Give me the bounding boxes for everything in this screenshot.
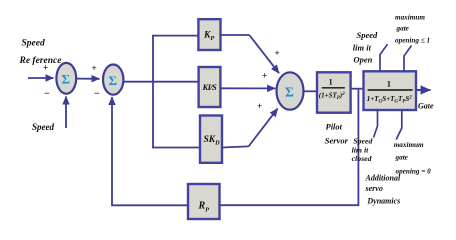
svg-text:Re ference: Re ference: [19, 56, 63, 66]
block SKD: [200, 116, 222, 163]
svg-text:+: +: [257, 101, 262, 111]
wire: gate output arrow: [416, 89, 431, 91]
svg-text:Additional: Additional: [365, 174, 401, 183]
svg-text:opening ≤ 1: opening ≤ 1: [395, 37, 430, 45]
pointer: max gate closed: [396, 110, 402, 140]
svg-text:+: +: [275, 48, 280, 58]
svg-text:Speed: Speed: [22, 38, 45, 48]
svg-text:Speed: Speed: [32, 122, 54, 132]
label: Speed limit closed: [352, 137, 373, 164]
svg-text:1: 1: [387, 78, 391, 88]
wire: SKD output: [222, 146, 249, 147]
label: maximum gate opening = 0: [394, 141, 431, 175]
label: Speed Reference: [19, 38, 63, 66]
wire: branch vertical: [152, 35, 154, 149]
summing junction S3: [277, 72, 304, 109]
svg-text:−: −: [44, 89, 50, 100]
label: Speed limit Open: [353, 30, 378, 65]
wire: feedback bottom from RP to left corner: [111, 204, 188, 206]
svg-text:+: +: [92, 63, 97, 73]
svg-text:gate: gate: [396, 25, 410, 33]
svg-text:−: −: [94, 89, 100, 100]
wire: feedback bottom from tap to RP: [219, 204, 359, 206]
wire: speed feedback up into S1: [65, 97, 67, 129]
summing junction S1: [56, 63, 76, 94]
svg-text:Open: Open: [354, 55, 373, 65]
svg-text:1: 1: [329, 76, 333, 86]
svg-text:opening = 0: opening = 0: [396, 168, 432, 176]
svg-text:Pilot: Pilot: [326, 122, 343, 132]
wire: KP output: [221, 34, 250, 36]
wire: reference input into S1: [28, 77, 54, 79]
pointer: speed limit open: [380, 44, 388, 71]
pointer: max gate open: [404, 46, 412, 72]
wire: feedback tap vertical down: [357, 89, 359, 206]
svg-text:gate: gate: [395, 153, 409, 161]
block RP: [188, 184, 220, 219]
svg-text:Speed: Speed: [353, 137, 372, 146]
wire: pilot servo output to servo dynamics: [351, 88, 364, 90]
svg-text:Speed: Speed: [357, 30, 379, 40]
label: Pilot Servor: [325, 122, 349, 146]
wire: SKD diagonal into S3: [249, 109, 278, 147]
svg-text:+: +: [43, 63, 48, 73]
pointer: speed limit closed: [374, 110, 378, 138]
svg-text:Σ: Σ: [109, 73, 118, 88]
svg-text:+: +: [262, 71, 267, 81]
label: maximum gate opening <= 1: [395, 14, 430, 45]
svg-text:maximum: maximum: [394, 141, 424, 149]
wire: branch to KP block: [152, 35, 198, 37]
wire: droop feedback up into S2: [111, 97, 113, 205]
svg-text:Dynamics: Dynamics: [366, 196, 400, 205]
svg-text:lim it: lim it: [353, 42, 372, 52]
wire: S3 output to pilot servo: [304, 90, 317, 92]
wire: KI/S output into S3: [220, 87, 275, 89]
svg-text:KI/S: KI/S: [202, 82, 218, 92]
svg-text:closed: closed: [352, 154, 372, 163]
block U2 servo dynamics 1/(1+TGS+TGTPS^2): [364, 71, 417, 110]
svg-text:Gate: Gate: [418, 102, 434, 111]
wire: S2 output to KI/S block: [123, 81, 198, 83]
block KI/S: [199, 67, 221, 107]
wire: branch to SKD block: [152, 147, 200, 149]
label: Additional servo Dynamics: [365, 174, 401, 206]
wire: KP diagonal into S3: [249, 35, 279, 73]
svg-text:servo: servo: [365, 184, 383, 193]
svg-text:maximum: maximum: [395, 14, 425, 22]
svg-text:Σ: Σ: [62, 72, 71, 87]
summing junction S2: [103, 65, 123, 95]
wire: S1 output to S2: [77, 78, 100, 80]
block KP: [198, 19, 220, 50]
svg-text:lim it: lim it: [352, 145, 370, 154]
svg-text:Σ: Σ: [285, 84, 294, 99]
svg-text:Servor: Servor: [325, 136, 349, 146]
block U1 pilot servo 1/(1+STp)^2: [317, 72, 351, 112]
